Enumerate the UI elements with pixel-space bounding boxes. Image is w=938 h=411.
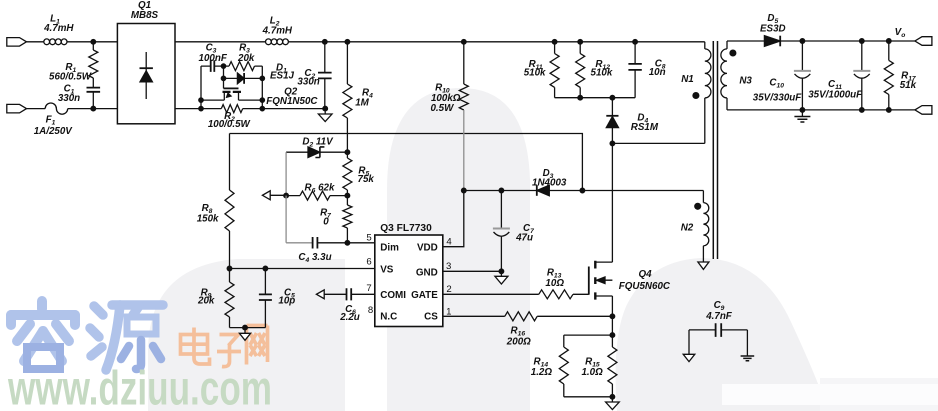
winding N2 [681,191,709,263]
node D2-R4-R5 junction [345,150,350,155]
capacitor C5 [259,269,295,328]
svg-text:1.2Ω: 1.2Ω [531,367,553,378]
phase dot N3 [730,50,736,56]
svg-text:0: 0 [323,217,329,228]
capacitor C9 [689,300,747,337]
capacitor C4 [286,196,375,264]
svg-text:N2: N2 [681,223,694,234]
node R17 top [887,39,892,44]
capacitor C11 [808,41,870,110]
svg-text:4: 4 [446,237,452,248]
pin 3 GND [416,261,452,278]
node C11 top [860,39,865,44]
svg-text:560/0.5W: 560/0.5W [49,72,92,83]
svg-text:R6 62k: R6 62k [305,183,335,195]
wire R14-R15 bottom [564,396,613,398]
node D3 cathode junction [580,188,585,193]
input terminal top [7,38,27,47]
ground arrow GND pin [495,271,508,284]
node source ground junction [610,395,615,400]
svg-text:N.C: N.C [380,312,397,323]
pin 2 GATE [411,284,452,301]
svg-text:1A/250V: 1A/250V [34,126,74,137]
capacitor C6 [324,288,375,323]
svg-text:6: 6 [366,257,371,268]
resistor R5 [343,152,374,195]
wire VS sense top [230,134,583,191]
node C10 top [800,39,805,44]
svg-text:Dim: Dim [380,243,399,254]
watermark blue characters [11,301,163,370]
svg-text:MB8S: MB8S [131,10,159,21]
resistor R13 [539,268,573,299]
node input junction top [91,40,96,45]
ground arrow under C2 [318,109,332,122]
resistor R17 [884,41,916,110]
resistor R16 [505,312,537,348]
svg-text:10n: 10n [649,67,666,78]
node C2 bottom [323,106,328,111]
svg-text:GATE: GATE [411,290,438,301]
svg-text:N3: N3 [739,76,752,87]
inductor L2 [262,16,293,45]
diode D2 zener [286,137,347,158]
node R17 bottom [887,108,892,113]
watermark orange characters [181,326,268,367]
wire D2 left leg [285,152,287,195]
node C3-R3 junction [221,64,225,68]
svg-text:2.2u: 2.2u [339,312,360,323]
svg-text:47u: 47u [515,233,533,244]
wire aux row [464,190,704,192]
resistor R14 [531,347,569,397]
pin 7 COMI [366,283,406,301]
svg-text:51k: 51k [900,80,917,91]
ground arrow N2 [698,262,709,269]
ground earth under C10 [794,110,810,122]
svg-text:VDD: VDD [417,243,438,254]
node R8-R9 junction [227,266,232,271]
ground arrow C9 left [683,354,695,361]
svg-text:Q3 FL7730: Q3 FL7730 [380,223,432,234]
ground arrow source [606,397,620,410]
arrow connector dim input [262,191,286,200]
resistor R10 [430,42,468,191]
svg-text:7: 7 [366,283,371,294]
node R14-R15 top junction [610,333,615,338]
resistor R2 [208,105,251,130]
node D1 anode junction [221,76,225,80]
wire VS row [230,268,375,270]
wire source down [611,296,613,335]
svg-text:Q4: Q4 [638,269,652,280]
output terminal bottom [915,106,932,115]
wire snubber bus [555,97,636,99]
svg-text:75k: 75k [358,174,375,185]
svg-text:1N4003: 1N4003 [532,178,567,189]
capacitor C7 [493,191,534,272]
node R6 left junction [284,193,289,198]
resistor R9 [197,269,234,328]
svg-text:N1: N1 [681,74,694,85]
node Dim-R7 junction [345,241,350,246]
diode D5 [760,13,786,46]
wire GATE [443,293,589,295]
node snubber right bottom [260,106,264,110]
capacitor C2 [297,42,331,109]
capacitor C3 [199,43,228,72]
node input junction bottom [91,106,96,111]
capacitor C1 [58,84,100,109]
bridge rectifier Q1 [117,0,175,124]
pin 8 N.C [368,305,397,323]
svg-text:330n: 330n [297,77,319,88]
node C2 top [323,40,328,45]
node R12 top [578,40,583,45]
node CS source junction [610,314,615,319]
svg-text:4.7nF: 4.7nF [705,311,733,322]
svg-text:COMI: COMI [380,290,406,301]
wire C9 left leg [688,330,690,354]
diode D4 [606,98,659,262]
svg-text:100nF: 100nF [199,53,228,64]
node D1 cathode junction [260,76,264,80]
transistor Q2 [201,78,318,107]
svg-text:1.0Ω: 1.0Ω [581,367,603,378]
svg-text:330n: 330n [58,93,80,104]
op-amp U1 controller Q3 FL7730 box [375,223,443,327]
pin 6 VS [366,257,393,276]
node Vo label [895,27,906,39]
wire snubber left leg [200,66,202,109]
svg-text:FQN1N50C: FQN1N50C [266,96,318,107]
capacitor C10 [753,41,811,110]
winding N3 [721,41,753,110]
node R10 top [462,40,467,45]
node VDD junction [462,188,467,193]
wire bottom rail Q1 to C2 [175,108,325,110]
node C8 top [633,40,638,45]
wire top-left rail [27,41,118,43]
node C5 top junction [263,266,268,271]
input terminal bottom [7,104,27,113]
phase dot N2 [695,203,701,209]
svg-text:10Ω: 10Ω [545,278,564,289]
svg-text:510k: 510k [524,68,546,79]
winding N1 [681,42,711,144]
node R12 bottom junction [578,95,583,100]
diode D3 [532,168,567,196]
svg-text:35V/330uF: 35V/330uF [753,93,802,104]
resistor R12 [576,42,613,98]
wire top rail Q1 to transformer [175,41,705,43]
resistor R4 [343,42,373,152]
svg-text:ES3D: ES3D [760,24,786,35]
node Q2 drain junction [260,98,264,102]
resistor R15 [581,335,616,397]
svg-text:2: 2 [446,284,451,295]
svg-text:VS: VS [380,264,394,275]
wire R14 branch [564,335,613,347]
node D4 anode junction [610,141,615,146]
wire GND pin [443,270,502,272]
svg-text:0.5W: 0.5W [430,103,454,114]
resistor R1 [49,42,98,88]
svg-text:1M: 1M [355,98,369,109]
resistor R7 [320,196,352,243]
svg-text:8: 8 [368,305,373,316]
wire VDD [443,191,464,247]
node GND junction [499,269,504,274]
resistor R3 [224,43,263,79]
svg-text:510k: 510k [591,68,613,79]
svg-text:CS: CS [424,312,438,323]
ground earth C9 right [741,356,755,361]
node R5-R6-R7 junction [345,193,350,198]
node snubber left bottom [199,106,203,110]
ground arrow under R9 [239,328,250,341]
svg-text:10p: 10p [278,296,295,307]
node C7 top junction [499,188,504,193]
fuse F1 [34,103,74,137]
svg-text:www.dziuu.com: www.dziuu.com [7,363,272,411]
pin 5 Dim [366,233,399,254]
svg-text:4.7mH: 4.7mH [262,26,293,37]
svg-text:D2 11V: D2 11V [302,137,334,149]
node C11 bottom [860,108,865,113]
svg-text:20k: 20k [237,53,255,64]
pin 4 VDD [417,237,452,254]
svg-text:GND: GND [416,267,438,278]
wire VS ground row [230,327,266,329]
arrow connector comi [316,290,324,299]
output terminal top [915,37,932,46]
wire C9 right leg [746,330,748,356]
svg-text:RS1M: RS1M [631,122,659,133]
svg-text:150k: 150k [197,214,219,225]
svg-text:FQU5N60C: FQU5N60C [619,281,671,292]
wire bottom-left rail [27,108,118,110]
resistor R8 [197,134,234,269]
transistor Q4 [589,261,671,300]
svg-text:3: 3 [446,261,451,272]
node C10 bottom [800,108,805,113]
capacitor C8 [628,42,665,98]
wire CS [443,315,613,317]
resistor R6 [286,183,347,201]
resistor R11 [524,42,559,98]
node D4 top junction [610,95,615,100]
pin 1 CS [424,307,451,323]
wire output top rail [727,40,915,42]
svg-text:C4 3.3u: C4 3.3u [298,252,331,264]
node VS ground junction [243,325,248,330]
inductor L1 [43,14,74,45]
svg-text:20k: 20k [197,296,215,307]
phase dot N1 [693,93,699,99]
transformer core [713,41,717,259]
svg-text:5: 5 [366,233,371,244]
svg-text:ES1J: ES1J [270,71,295,82]
node R11 top [552,40,557,45]
diode D1 [224,63,295,84]
wire snubber right leg [261,100,263,109]
node R4 top [345,40,350,45]
svg-text:200Ω: 200Ω [506,337,531,348]
wire D4 to N1 [612,142,704,144]
svg-text:100/0.5W: 100/0.5W [208,119,251,130]
node Q2 source junction [199,98,203,102]
wire output bottom rail [727,109,915,111]
svg-text:4.7mH: 4.7mH [43,23,74,34]
watermark url text [7,363,272,411]
svg-text:35V/1000uF: 35V/1000uF [808,90,863,101]
